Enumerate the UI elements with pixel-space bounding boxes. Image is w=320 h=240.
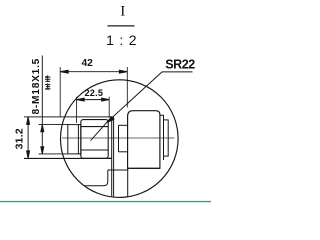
lower hanging pair bbox=[112, 159, 114, 197]
svg-text:I: I bbox=[120, 4, 125, 20]
dimension 31.2 bbox=[27, 117, 30, 158]
shaft neck bbox=[119, 125, 128, 152]
dimension 42 bbox=[60, 67, 127, 117]
right plate lower join bbox=[163, 156, 165, 160]
washer left bbox=[68, 125, 81, 154]
lower shelf horizontal bbox=[108, 169, 128, 171]
casting edge below cylinder bbox=[127, 168, 129, 197]
green bottom line bbox=[0, 201, 211, 203]
detail circle boundary bbox=[61, 80, 179, 198]
svg-text:31.2: 31.2 bbox=[14, 128, 25, 149]
rib with fillet bbox=[85, 170, 108, 186]
svg-text:8-M18X1.5: 8-M18X1.5 bbox=[31, 58, 42, 115]
svg-text:1 : 2: 1 : 2 bbox=[106, 32, 137, 48]
big cylinder bbox=[128, 111, 160, 169]
right plate bbox=[164, 120, 169, 156]
svg-text:22.5: 22.5 bbox=[84, 88, 103, 98]
view label underline bbox=[108, 25, 135, 27]
washer B and vertical plate bbox=[108, 117, 113, 159]
dimension M18 (vertical) bbox=[39, 56, 68, 154]
svg-text:SR22: SR22 bbox=[165, 57, 195, 71]
nut bbox=[81, 120, 108, 159]
chinese annotation (drawn strokes) bbox=[45, 75, 50, 89]
dimension 22.5 bbox=[77, 97, 110, 123]
centerline axis bbox=[62, 137, 175, 139]
step to right plate bbox=[160, 115, 164, 120]
bottom extension / nut bottom line bbox=[24, 157, 111, 159]
svg-text:42: 42 bbox=[82, 58, 94, 69]
SR22 leader radius line bbox=[91, 72, 193, 141]
big cylinder bottom edge bbox=[128, 167, 160, 169]
thread thin line top bbox=[24, 116, 112, 118]
